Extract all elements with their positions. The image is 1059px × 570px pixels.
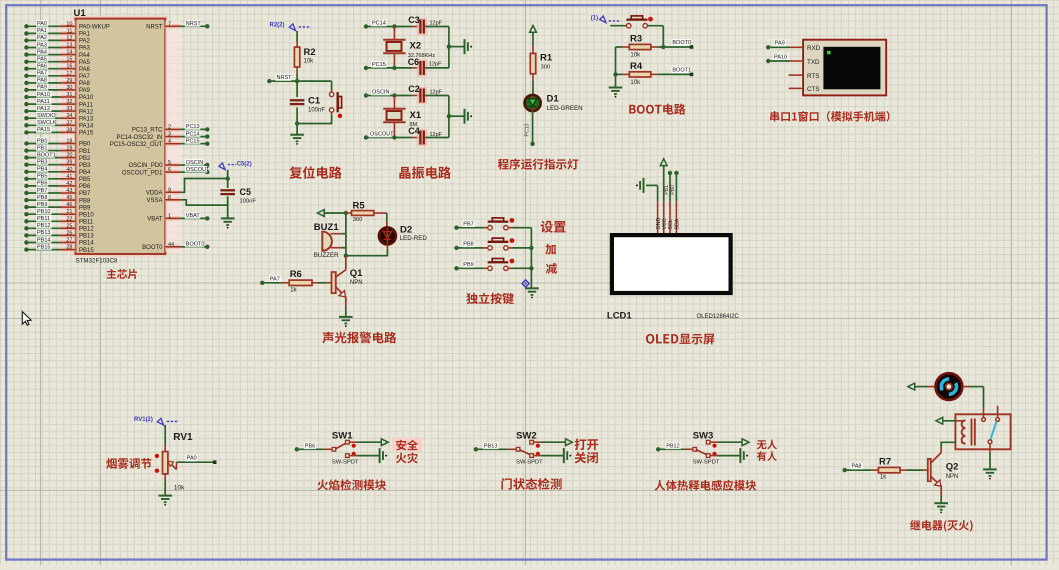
svg-text:R7: R7 (879, 456, 891, 467)
svg-text:PB15: PB15 (37, 244, 50, 250)
chip pin 45 (PB8) + wire + node PB8 (24, 194, 91, 204)
svg-text:32: 32 (66, 99, 72, 105)
chip pin 34 (PA13) + wire + node SWDIO (24, 112, 94, 122)
svg-text:X1: X1 (410, 110, 422, 121)
caption BOOT circuit (629, 104, 685, 115)
wire keys bus (530, 228, 532, 289)
capacitor C5 (220, 187, 256, 205)
caption reset circuit (289, 166, 341, 179)
chip pin 31 (PA10) + wire + node PA10 (24, 91, 94, 101)
svg-text:17: 17 (66, 71, 72, 77)
svg-text:PB0: PB0 (79, 142, 91, 148)
svg-text:R6: R6 (290, 269, 302, 280)
svg-text:X2: X2 (410, 41, 422, 52)
wire RV1 top (164, 425, 166, 445)
switch SW2 SW-SPDT + node PB13 (474, 430, 573, 465)
resistor R3 (629, 34, 651, 59)
pin highlight band left (60, 21, 76, 253)
svg-text:LCD1: LCD1 (607, 311, 633, 322)
pin C4 left (413, 137, 420, 139)
pin C2 left (413, 95, 420, 97)
chip pin 29 (PA8) + wire + node PA8 (24, 77, 90, 87)
svg-text:PB13: PB13 (37, 230, 50, 236)
svg-text:RTS: RTS (807, 73, 819, 80)
pin R2 top (296, 42, 298, 47)
caption nobody (757, 440, 777, 450)
svg-text:C2: C2 (408, 84, 420, 94)
node PA7 wire (260, 275, 282, 285)
motor M1 (936, 373, 963, 400)
caption independent keys (466, 293, 514, 305)
crystal X2 (383, 27, 435, 68)
wire BUZ1 vertical (345, 213, 347, 256)
svg-text:10: 10 (66, 21, 72, 27)
wire D1 to PC13 node (525, 111, 533, 144)
svg-text:PC14: PC14 (372, 21, 386, 27)
svg-text:100nF: 100nF (308, 108, 325, 114)
svg-text:SCL: SCL (668, 219, 674, 229)
svg-text:SWDIO: SWDIO (37, 113, 56, 119)
node PC13 dot (530, 142, 534, 146)
mouse cursor (22, 312, 31, 326)
svg-text:PA12: PA12 (37, 106, 50, 112)
pin R1 bottom (532, 74, 534, 81)
node NRST horizontal wire (267, 74, 332, 83)
button PB7 + wire + node PB7 (454, 218, 531, 230)
svg-text:R5: R5 (353, 200, 366, 211)
svg-text:PA5: PA5 (37, 57, 47, 63)
wire C5 vertical (227, 170, 229, 219)
svg-text:PA3: PA3 (37, 42, 47, 48)
power arrow relay coil (936, 417, 956, 424)
node OSCOUT wire (364, 131, 413, 140)
svg-text:PC14-OSC32_IN: PC14-OSC32_IN (116, 135, 162, 141)
svg-text:BOOT0: BOOT0 (142, 245, 163, 251)
svg-text:PB10: PB10 (79, 212, 94, 218)
wire coil to Q2 collector (941, 442, 955, 447)
junction OSCOUT/X1 (392, 135, 396, 139)
chip pin 18 (PB0) + wire + node PB0 (24, 137, 91, 147)
svg-text:PA7: PA7 (79, 74, 91, 80)
node PA8 wire (843, 463, 872, 473)
svg-text:28: 28 (66, 245, 72, 251)
junction PC15/X2 (392, 66, 396, 70)
wire button bottom (297, 112, 332, 123)
chip pin 42 (PB6) + wire + node PB6 (24, 180, 91, 190)
svg-text:PA0: PA0 (187, 456, 197, 462)
svg-text:D1: D1 (547, 93, 560, 104)
chip pin 46 (PB9) + wire + node PB9 (24, 201, 91, 211)
svg-text:PA15: PA15 (37, 127, 50, 133)
chip pin 44 (BOOT0) + wire + node BOOT0 (142, 241, 209, 251)
wire R1 to D1 (532, 81, 534, 95)
relay contact NO (982, 418, 986, 422)
svg-text:PC13_RTC: PC13_RTC (132, 128, 163, 134)
chip pin 7 (NRST) + wire + node NRST (146, 20, 209, 30)
node PA9 wire (766, 40, 803, 50)
pin RV1 top (164, 445, 166, 452)
svg-text:10k: 10k (304, 59, 315, 65)
svg-text:9: 9 (168, 187, 171, 193)
svg-text:BUZZER: BUZZER (314, 252, 339, 259)
svg-text:OSCOUT: OSCOUT (186, 167, 210, 173)
chip pin 40 (PB4) + wire + node PB4 (24, 166, 91, 176)
chip pin 11 (PA1) + wire + node PA1 (24, 27, 90, 37)
ground keys (525, 288, 539, 298)
svg-text:C1: C1 (308, 96, 321, 107)
svg-text:C3: C3 (408, 15, 420, 25)
svg-text:SW2: SW2 (516, 430, 537, 441)
svg-text:PC14: PC14 (186, 131, 200, 137)
svg-text:C4: C4 (408, 126, 420, 136)
caption relay (extinguish) (910, 520, 973, 532)
svg-text:100nF: 100nF (240, 199, 257, 205)
wire Q2 emitter to ground (940, 486, 942, 504)
svg-text:PB12: PB12 (79, 227, 94, 233)
wire RV1 bottom (164, 481, 166, 496)
svg-text:PA14: PA14 (79, 124, 94, 130)
svg-text:RV1(2): RV1(2) (134, 417, 153, 423)
svg-text:PB11: PB11 (79, 220, 94, 226)
junction X1 right (447, 114, 451, 118)
caption minus (546, 263, 557, 274)
chip pin 5 (OSCIN_PD0) + wire + node OSCIN (128, 159, 209, 169)
svg-text:33: 33 (66, 106, 72, 112)
svg-text:RXD: RXD (807, 45, 821, 52)
svg-text:TXD: TXD (807, 59, 820, 66)
svg-text:BOOT1: BOOT1 (37, 152, 56, 158)
chip pin 43 (PB7) + wire + node PB7 (24, 187, 91, 197)
svg-text:PA11: PA11 (79, 102, 93, 108)
caption OLED display (646, 334, 715, 345)
svg-text:PB7: PB7 (79, 191, 91, 197)
buzzer BUZ1 (314, 222, 340, 259)
svg-text:PB13: PB13 (484, 444, 497, 450)
svg-text:PC13: PC13 (525, 123, 531, 136)
svg-text:SW1: SW1 (332, 430, 353, 441)
svg-text:PA1: PA1 (37, 28, 47, 34)
svg-text:PB7: PB7 (463, 221, 473, 227)
display LCD1 pins GND VCC SCL SDA (656, 201, 681, 233)
caption fire (396, 452, 418, 463)
button PB8 + wire + node PB8 (454, 238, 531, 250)
svg-text:VCC: VCC (662, 218, 668, 229)
resistor R4 (629, 61, 651, 86)
junction keys PB8 (529, 246, 533, 250)
pin relay common (983, 408, 985, 418)
svg-text:18: 18 (66, 139, 72, 145)
potentiometer RV1 (155, 432, 193, 492)
svg-text:PA1: PA1 (79, 32, 91, 38)
svg-text:Q1: Q1 (350, 268, 363, 279)
svg-text:1k: 1k (290, 288, 297, 294)
junction C1/ground (295, 121, 299, 125)
svg-text:D2: D2 (400, 224, 412, 235)
svg-text:C5(2): C5(2) (237, 162, 252, 168)
svg-text:PB4: PB4 (79, 170, 91, 176)
svg-text:10k: 10k (630, 53, 641, 59)
junction NRST/C1 (295, 79, 299, 83)
svg-text:PB14: PB14 (79, 241, 94, 247)
caption smoke adjust (106, 458, 151, 469)
serial terminal body (803, 40, 886, 96)
power arrow alarm (317, 210, 346, 217)
svg-text:PB8: PB8 (463, 242, 473, 248)
svg-text:21: 21 (66, 209, 72, 215)
svg-text:1k: 1k (880, 474, 887, 480)
svg-text:PB14: PB14 (37, 237, 50, 243)
chip pin 1 (VBAT) + wire + node VBAT (147, 212, 209, 222)
junction OSCIN/X1 (392, 93, 396, 97)
wire OLED GND pin (657, 185, 659, 201)
chip pin 6 (OSCOUT_PD1) + wire + node OSCOUT (122, 166, 210, 176)
wire VDDA to C5 (180, 179, 227, 193)
svg-text:12pF: 12pF (429, 62, 442, 68)
wire left bus (615, 47, 617, 74)
pin relay pivot bottom (989, 444, 991, 453)
caption main chip (107, 269, 137, 279)
svg-text:NPN: NPN (350, 280, 363, 286)
svg-text:41: 41 (66, 174, 72, 180)
wire to ground X2 (449, 46, 465, 48)
svg-text:PC13: PC13 (186, 124, 200, 130)
svg-text:BOOT1: BOOT1 (672, 67, 691, 73)
svg-text:43: 43 (66, 188, 72, 194)
svg-text:VBAT: VBAT (147, 217, 163, 223)
svg-text:PB13: PB13 (79, 234, 94, 240)
junction BOOT0 node (661, 45, 665, 49)
pin CTS (789, 87, 804, 89)
caption alarm circuit (322, 332, 396, 344)
svg-text:SW-SPDT: SW-SPDT (516, 460, 543, 466)
switch SW1 SW-SPDT + node PB6 (295, 430, 389, 465)
svg-text:SDA: SDA (675, 218, 681, 229)
svg-text:PC15-OSC32_OUT: PC15-OSC32_OUT (110, 142, 163, 148)
wire R7 to Q2 base (900, 469, 928, 471)
svg-text:PA10: PA10 (79, 95, 94, 101)
ground relay (983, 469, 997, 479)
caption PIR module (655, 480, 757, 491)
svg-text:PA12: PA12 (79, 109, 94, 115)
svg-text:PA10: PA10 (774, 54, 787, 60)
wire to ground BOOT (615, 74, 617, 87)
junction Q1 collector (344, 254, 348, 258)
svg-text:R2: R2 (304, 47, 316, 58)
svg-text:3: 3 (168, 132, 171, 138)
ground BOOT circuit (609, 88, 623, 98)
svg-text:VSSA: VSSA (146, 198, 162, 204)
svg-text:16: 16 (66, 64, 72, 70)
svg-text:PB3: PB3 (37, 160, 47, 166)
caption plus (545, 244, 555, 255)
svg-text:U1: U1 (74, 8, 87, 19)
svg-text:PB5: PB5 (79, 177, 91, 183)
wire R6 to Q1 base (312, 282, 332, 284)
ground reset circuit (290, 135, 304, 145)
svg-text:29: 29 (66, 78, 72, 84)
wire R2 top (296, 31, 298, 42)
svg-text:14: 14 (66, 50, 72, 56)
svg-text:VBAT: VBAT (186, 213, 201, 219)
wire C4 right (425, 137, 449, 139)
svg-text:SW3: SW3 (693, 430, 714, 441)
relay pin NC (996, 406, 1000, 422)
wire motor to relay (962, 387, 983, 408)
caption closed (575, 452, 598, 464)
wire to ground (296, 124, 298, 135)
svg-text:PB12: PB12 (37, 223, 50, 229)
svg-text:LED-GREEN: LED-GREEN (547, 105, 583, 112)
svg-text:PB15: PB15 (79, 248, 94, 254)
node OSCIN wire (364, 89, 413, 98)
svg-text:SWCLK: SWCLK (37, 120, 57, 126)
node PA10 wire (766, 53, 803, 63)
svg-text:PB9: PB9 (79, 205, 91, 211)
wire Q1 emitter to ground (345, 297, 347, 317)
junction PC14/X2 (392, 24, 396, 28)
svg-text:300: 300 (353, 217, 363, 223)
svg-text:PB1: PB1 (79, 149, 91, 155)
wire NRST to button (331, 81, 333, 92)
svg-text:PB1: PB1 (37, 145, 47, 151)
IC U1 STM32F103C8 body (74, 8, 167, 264)
svg-text:CTS: CTS (807, 86, 820, 93)
svg-text:R2(2): R2(2) (270, 23, 285, 29)
chip pin 2 (PC13_RTC) + wire + node PC13 (132, 123, 210, 133)
junction VDDA-C5 (226, 176, 230, 180)
chip pin 16 (PA6) + wire + node PA6 (24, 63, 90, 73)
wire R4 right + node BOOT1 (651, 66, 694, 76)
svg-text:PB11: PB11 (37, 216, 50, 222)
svg-text:(1): (1) (591, 16, 598, 22)
button PB9 + wire + node PB9 (454, 259, 531, 271)
power arrow OLED VCC (660, 159, 667, 202)
svg-text:39: 39 (66, 160, 72, 166)
svg-text:OSCIN: OSCIN (372, 90, 389, 96)
chip pin 19 (PB1) + wire + node PB1 (24, 144, 91, 154)
junction X2 right (447, 44, 451, 48)
power arrow motor (908, 383, 936, 390)
pin R7 left (871, 469, 878, 471)
svg-text:26: 26 (66, 230, 72, 236)
resistor R2 (294, 47, 315, 67)
resistor R6 (289, 269, 312, 294)
svg-text:PB6: PB6 (37, 181, 47, 187)
svg-text:PA11: PA11 (37, 99, 50, 105)
crystal X1 (383, 96, 422, 138)
relay lever (cyan) (990, 422, 996, 440)
svg-text:LED-RED: LED-RED (400, 235, 428, 242)
wire NRST down to C1 (296, 81, 298, 97)
caption crystal circuit (399, 166, 451, 179)
svg-text:PB7: PB7 (37, 188, 47, 194)
ground X1 (sideways) (465, 109, 473, 124)
svg-text:10k: 10k (630, 80, 641, 86)
svg-text:PA13: PA13 (79, 116, 94, 122)
svg-text:PB8: PB8 (79, 198, 91, 204)
svg-text:PA4: PA4 (37, 49, 47, 55)
svg-text:SW-SPDT: SW-SPDT (693, 460, 720, 466)
chip pin 37 (PA14) + wire + node SWCLK (24, 119, 94, 129)
node PC14 wire (364, 20, 413, 29)
svg-text:R4: R4 (630, 61, 643, 72)
svg-text:31: 31 (66, 92, 72, 98)
svg-text:PB10: PB10 (37, 209, 50, 215)
ground OLED (sideways left) (636, 178, 658, 193)
relay contact pivot (988, 440, 992, 444)
svg-text:PB8: PB8 (37, 195, 47, 201)
button RESET (329, 92, 342, 118)
wire C3 right (425, 26, 449, 28)
node PC15 wire (364, 61, 413, 70)
pin BUZ1 top (331, 233, 346, 235)
capacitor C2 (408, 84, 442, 104)
svg-text:38: 38 (66, 127, 72, 133)
svg-text:5: 5 (168, 160, 171, 166)
svg-text:PB9: PB9 (463, 262, 473, 268)
svg-text:R3: R3 (630, 34, 642, 45)
wire X2 right vertical (448, 27, 450, 68)
wire C2 right (425, 95, 449, 97)
pin R6 left (282, 282, 290, 284)
chip pin 12 (PA2) + wire + node PA2 (24, 34, 90, 44)
caption safe (highlight) (393, 437, 423, 451)
svg-text:PB6: PB6 (79, 184, 91, 190)
resistor R1 (530, 53, 553, 74)
svg-text:BOOT0: BOOT0 (672, 40, 691, 46)
resistor R5 (352, 200, 374, 222)
transistor Q1 (332, 256, 364, 297)
led D2 LED-RED (379, 224, 427, 244)
svg-text:13: 13 (66, 43, 72, 49)
wire R3 right + node BOOT0 (651, 39, 694, 49)
svg-text:PA0: PA0 (37, 21, 47, 27)
svg-text:PA8: PA8 (79, 81, 91, 87)
svg-text:22: 22 (66, 216, 72, 222)
svg-text:PA8: PA8 (852, 464, 862, 470)
svg-text:PA7: PA7 (37, 71, 47, 77)
svg-text:300: 300 (541, 65, 551, 71)
pin RV1 bottom (164, 474, 166, 481)
wire C6 right (425, 67, 449, 69)
relay coil (955, 419, 974, 446)
svg-text:PA8: PA8 (37, 78, 47, 84)
blue marker C5(2) (219, 162, 252, 170)
chip pin 33 (PA12) + wire + node PA12 (24, 105, 94, 115)
svg-text:NRST: NRST (277, 75, 293, 81)
chip pin 41 (PB5) + wire + node PB5 (24, 173, 91, 183)
svg-text:PB0: PB0 (37, 138, 47, 144)
node SCL wire (664, 171, 672, 202)
pin RTS (789, 74, 804, 76)
svg-text:SW-SPDT: SW-SPDT (332, 460, 359, 466)
blue marker RV1(2) (134, 417, 179, 425)
caption program run indicator (498, 159, 579, 170)
svg-text:PA3: PA3 (79, 46, 91, 52)
svg-text:Q2: Q2 (946, 461, 959, 472)
svg-text:VDDA: VDDA (146, 191, 163, 197)
svg-text:15: 15 (66, 57, 72, 63)
svg-text:25: 25 (66, 223, 72, 229)
svg-text:C5: C5 (240, 187, 252, 197)
svg-text:PA9: PA9 (37, 85, 47, 91)
svg-text:BOOT0: BOOT0 (186, 242, 205, 248)
svg-text:PA10: PA10 (37, 92, 50, 98)
junction keys PB9 (529, 266, 533, 270)
svg-text:PA4: PA4 (79, 53, 91, 59)
svg-text:PA9: PA9 (775, 41, 785, 47)
svg-text:37: 37 (66, 120, 72, 126)
